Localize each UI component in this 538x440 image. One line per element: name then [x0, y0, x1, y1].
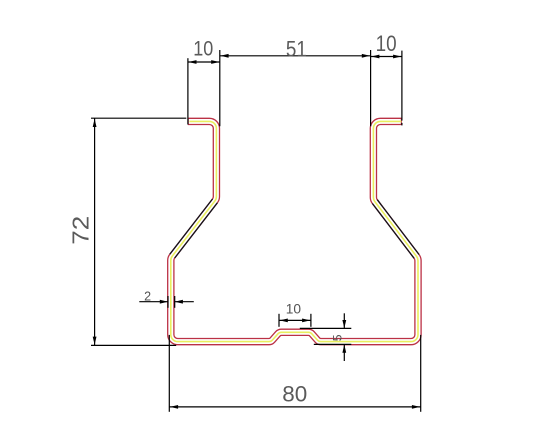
svg-text:72: 72 [68, 216, 94, 245]
svg-text:80: 80 [282, 382, 307, 407]
svg-text:10: 10 [193, 37, 213, 60]
svg-text:10: 10 [286, 301, 301, 316]
svg-text:5: 5 [331, 334, 345, 341]
svg-text:51: 51 [286, 37, 307, 62]
svg-text:2: 2 [144, 290, 151, 304]
svg-text:10: 10 [376, 31, 397, 56]
